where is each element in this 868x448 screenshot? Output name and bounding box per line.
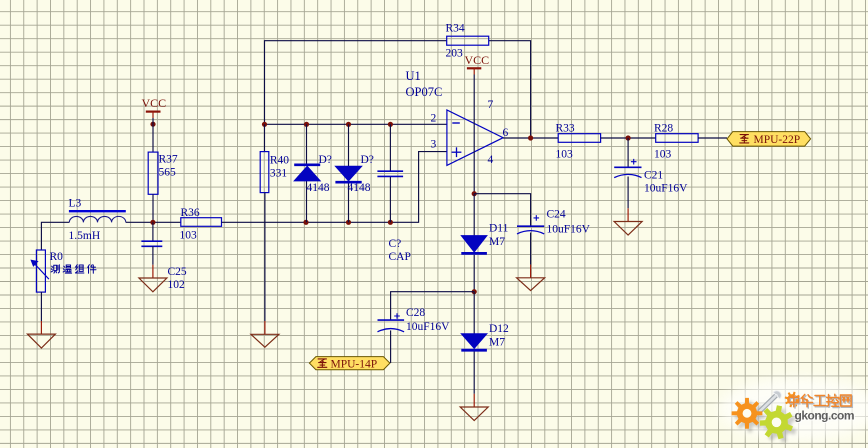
- ground under C25: [139, 265, 167, 292]
- svg-text:R40: R40: [270, 155, 289, 167]
- svg-text:C28: C28: [406, 307, 425, 319]
- svg-text:203: 203: [446, 48, 464, 60]
- svg-text:7: 7: [488, 99, 494, 111]
- svg-text:10uF16V: 10uF16V: [644, 183, 688, 195]
- wire C25 drop: [152, 222, 154, 241]
- svg-text:L3: L3: [69, 198, 82, 210]
- wire C25 to ground: [152, 246, 154, 264]
- watermark small gear: [785, 392, 801, 408]
- node junction D? anode bottom: [303, 220, 308, 225]
- svg-text:D11: D11: [489, 223, 509, 235]
- svg-text:MPU-22P: MPU-22P: [754, 134, 801, 146]
- resistor R0 thermistor: [31, 250, 63, 292]
- wire R40 top stub: [264, 124, 266, 151]
- svg-text:C21: C21: [644, 170, 663, 182]
- svg-text:gkong.com: gkong.com: [795, 409, 855, 423]
- svg-text:R0: R0: [50, 251, 64, 263]
- wire diode D? up stubs: [306, 124, 308, 222]
- watermark orange gear: [732, 398, 763, 429]
- svg-text:565: 565: [159, 167, 177, 179]
- svg-text:C24: C24: [547, 209, 566, 221]
- wire pin4 to D11: [473, 194, 475, 236]
- node junction C D11/D12/C28: [472, 289, 477, 294]
- wire D11 to node C: [473, 255, 475, 292]
- wire C? stubs: [389, 124, 391, 222]
- pin 2: [431, 113, 437, 125]
- power VCC op-amp pin7: [465, 53, 490, 75]
- diode D? 4148 pointing down: [335, 154, 374, 194]
- svg-text:102: 102: [168, 279, 186, 291]
- svg-text:R34: R34: [446, 23, 465, 35]
- capacitor C25: [141, 241, 187, 291]
- watermark green gear: [760, 405, 793, 439]
- wire R37 to node B: [152, 194, 154, 222]
- svg-text:D?: D?: [319, 154, 332, 166]
- ground under C21: [614, 208, 642, 235]
- pin 4: [488, 154, 494, 166]
- wire R40 to ground: [264, 193, 266, 321]
- svg-text:10uF16V: 10uF16V: [547, 224, 591, 236]
- node junction pin4: [472, 191, 477, 196]
- node junction D? cathode top: [346, 122, 351, 127]
- watermark halo: [719, 378, 868, 440]
- wire C28 to port: [390, 330, 392, 363]
- svg-text:4148: 4148: [307, 182, 330, 194]
- wire C21 drop: [627, 138, 629, 167]
- resistor R28: [654, 123, 698, 161]
- node junction B L3/R36/C25/R37: [150, 220, 155, 225]
- wire output pin6: [503, 137, 558, 139]
- resistor R40: [260, 152, 289, 193]
- wire node C to D12: [473, 292, 475, 334]
- wire L3 to node B: [126, 221, 181, 223]
- resistor R37: [148, 152, 178, 194]
- svg-text:MPU-14P: MPU-14P: [331, 359, 378, 371]
- node junction D? top bottom: [346, 220, 351, 225]
- wire diode D? down stubs: [348, 124, 350, 222]
- ground under R0: [27, 321, 55, 348]
- wire R0 to ground: [40, 292, 42, 321]
- watermark title 中华工控网: [789, 394, 852, 408]
- wire feedback top from node A to R34: [265, 41, 447, 125]
- svg-text:4148: 4148: [348, 182, 371, 194]
- svg-text:R37: R37: [159, 154, 178, 166]
- svg-text:D?: D?: [361, 154, 374, 166]
- capacitor C24 polarized: [517, 209, 591, 236]
- capacitor C? CAP: [377, 171, 410, 263]
- wire VCC to R37: [152, 118, 154, 152]
- pin 7: [488, 99, 494, 111]
- svg-text:M7: M7: [489, 337, 505, 349]
- node junction R33/C21/R28: [626, 135, 631, 140]
- resistor R34: [446, 23, 489, 60]
- svg-text:R33: R33: [556, 123, 575, 135]
- pin 6: [503, 127, 509, 139]
- node junction A feedback/R40: [262, 122, 267, 127]
- node junction VCC-R37: [150, 122, 155, 127]
- ground under R40: [251, 321, 279, 347]
- resistor R36: [180, 207, 222, 242]
- svg-text:10uF16V: 10uF16V: [406, 321, 450, 333]
- wire R28 to port: [698, 137, 727, 139]
- diode D11 M7 pointing down: [461, 223, 508, 254]
- wire R33 to R28: [601, 137, 656, 139]
- svg-text:4: 4: [488, 154, 494, 166]
- capacitor C21 polarized: [614, 159, 688, 195]
- wire C21 to ground: [627, 177, 629, 209]
- svg-text:R28: R28: [654, 123, 673, 135]
- node junction C? bottom: [388, 220, 393, 225]
- diode D? 4148 pointing up: [294, 154, 332, 194]
- svg-text:M7: M7: [489, 236, 505, 248]
- svg-text:R36: R36: [181, 207, 200, 219]
- power VCC left: [142, 96, 167, 118]
- pin 3: [431, 139, 437, 151]
- watermark gkong.com: [795, 409, 856, 424]
- svg-text:331: 331: [270, 168, 288, 180]
- inductor L3: [69, 198, 126, 243]
- svg-text:OP07C: OP07C: [406, 85, 443, 99]
- resistor R33: [556, 123, 601, 161]
- wire D12 to ground: [473, 352, 475, 394]
- svg-text:103: 103: [654, 149, 672, 161]
- ground under C24: [517, 265, 545, 291]
- wire left corner to R0: [41, 222, 69, 250]
- diode D12 M7 pointing down: [461, 323, 509, 350]
- svg-text:VCC: VCC: [465, 53, 490, 67]
- op-amp U1 OP07C: [406, 69, 504, 165]
- svg-text:C?: C?: [389, 238, 402, 250]
- node junction D? anode top: [304, 122, 309, 127]
- svg-text:2: 2: [431, 113, 437, 125]
- wire pin4 to C24: [474, 194, 530, 227]
- node junction output/feedback: [528, 135, 533, 140]
- watermark gear shadows: [735, 401, 797, 442]
- svg-text:103: 103: [180, 230, 198, 242]
- port 至MPU-22P: [727, 132, 811, 147]
- wire R36 to pin3 riser: [222, 152, 447, 223]
- ground under D12: [460, 394, 488, 421]
- svg-text:103: 103: [556, 149, 574, 161]
- svg-text:D12: D12: [489, 323, 509, 335]
- capacitor C28 polarized: [378, 307, 451, 333]
- wire C24 to ground: [530, 233, 532, 265]
- svg-text:C25: C25: [168, 266, 187, 278]
- svg-text:6: 6: [503, 127, 509, 139]
- port 至MPU-14P: [309, 357, 390, 371]
- wire inverting input bus y=124: [265, 123, 447, 125]
- label 测温组件: [51, 265, 96, 274]
- svg-text:3: 3: [431, 139, 437, 151]
- svg-text:CAP: CAP: [389, 251, 411, 263]
- svg-text:VCC: VCC: [142, 96, 167, 110]
- wire node C to C28: [391, 292, 475, 320]
- watermark wrench: [760, 391, 781, 411]
- wire R34 right to output node: [489, 41, 531, 138]
- wire pin7/pin4 vertical: [473, 75, 475, 194]
- svg-text:U1: U1: [406, 69, 421, 83]
- node junction C? top: [388, 122, 393, 127]
- svg-text:1.5mH: 1.5mH: [69, 230, 101, 242]
